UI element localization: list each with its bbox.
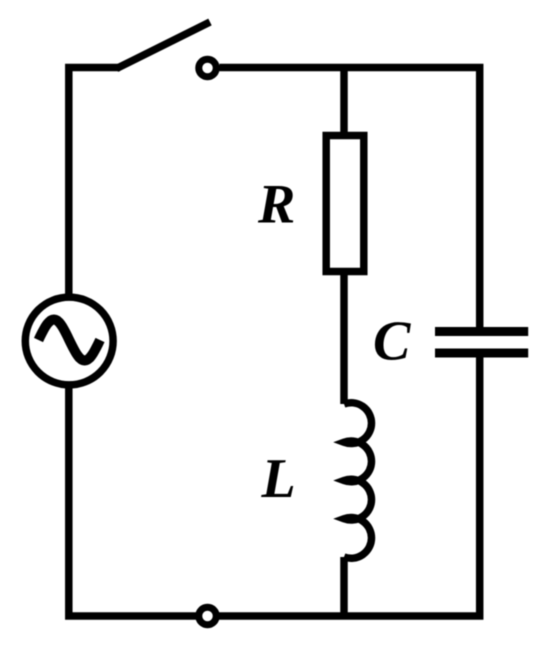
wire top right and down to capacitor	[220, 68, 480, 328]
AC source circle	[25, 297, 113, 385]
svg-text:R: R	[257, 174, 295, 236]
resistor R body	[326, 136, 364, 272]
capacitor C bottom plate	[435, 349, 528, 358]
wire right-bottom, bottom, and left-bottom	[69, 355, 480, 616]
node top (switch contact)	[199, 59, 217, 77]
wire from top junction to resistor	[340, 68, 348, 136]
svg-text:C: C	[373, 311, 411, 373]
wire inductor to bottom	[340, 557, 348, 616]
wire top-left corner and switch stub	[69, 68, 120, 299]
capacitor C top plate	[435, 327, 528, 336]
AC source sine wave	[39, 320, 101, 361]
switch blade	[117, 22, 211, 69]
node bottom	[199, 607, 217, 625]
wire resistor to inductor	[340, 272, 348, 405]
inductor L coils	[344, 403, 371, 559]
svg-text:L: L	[261, 448, 296, 510]
